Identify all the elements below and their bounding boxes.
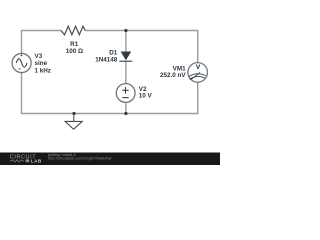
label R1 [70,41,79,48]
footer url text [48,156,112,161]
value label 10 V [139,93,153,100]
wire diode branch, top junction to D1 anode [125,31,127,52]
svg-text:1 kHz: 1 kHz [35,68,51,75]
footer CircuitLab logo [10,154,42,163]
junction node at V2 / bottom wire [124,112,127,115]
wire top rail, V3 corner to R1 left lead [21,30,61,32]
junction node at D1 branch / top wire [124,29,127,32]
footer document id text [47,152,77,157]
junction node at ground / bottom wire [72,112,75,115]
wire bottom rail [21,113,198,115]
ground [65,114,82,130]
svg-text:sine: sine [35,60,48,67]
label VM1 [173,66,186,73]
svg-text:LAB: LAB [31,158,42,163]
wire right rail, top corner to VM1 top terminal [197,30,199,63]
svg-text:252.0 nV: 252.0 nV [160,72,186,79]
svg-text:V3: V3 [35,53,43,60]
value label 1 kHz [35,68,51,75]
svg-text:10 V: 10 V [139,93,153,100]
value label 100 Ω [66,48,83,55]
label V2 [139,86,147,93]
wire left rail, V3 bottom terminal to bottom corner [21,73,23,115]
value label sine [35,60,48,67]
svg-text:100 Ω: 100 Ω [66,48,83,55]
value label 252.0 nV [160,72,186,79]
wire left rail, top corner to V3 top terminal [21,30,23,54]
wire diode branch, V2 minus terminal to bottom junction [125,102,127,113]
svg-text:1N4148: 1N4148 [95,57,118,64]
wire diode branch, D1 cathode to V2 plus terminal [125,61,127,83]
svg-text:V: V [196,64,201,71]
wire right rail, VM1 bottom terminal to bottom corner [197,82,199,114]
footer bar [0,153,220,166]
wire top rail, R1 right lead to VM1 corner [85,30,198,32]
label V3 [35,53,43,60]
svg-text:http://circuitlab.com/cmgd/7k8: http://circuitlab.com/cmgd/7k8ub4qv [48,156,112,161]
value label 1N4148 [95,57,118,64]
voltage source V2 (DC) [116,84,135,103]
resistor R1 [61,26,85,35]
label D1 [109,49,118,56]
svg-text:D1: D1 [109,49,118,56]
voltmeter VM1 [188,63,208,83]
diode D1 [119,52,132,62]
voltage source V3 (sine) [12,53,31,72]
